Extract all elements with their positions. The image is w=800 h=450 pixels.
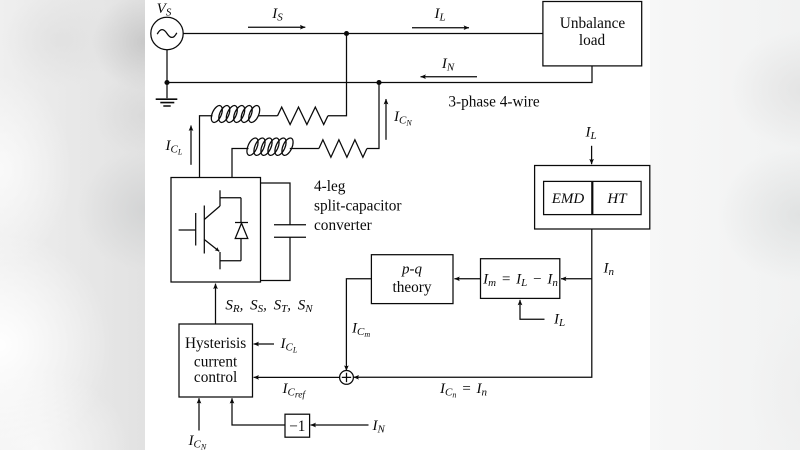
svg-text:ICm: ICm (351, 321, 370, 340)
svg-text:IS: IS (271, 6, 283, 24)
svg-text:In: In (603, 261, 615, 279)
svg-text:SR, SS, ST, SN: SR, SS, ST, SN (225, 298, 313, 316)
svg-text:HT: HT (606, 191, 628, 207)
svg-text:Hysterisis: Hysterisis (185, 335, 246, 352)
svg-text:current: current (194, 353, 238, 370)
svg-text:ICN: ICN (188, 433, 207, 450)
svg-text:ICL: ICL (280, 336, 298, 355)
svg-text:−1: −1 (289, 418, 305, 435)
svg-text:ICref: ICref (282, 381, 307, 401)
svg-text:load: load (579, 32, 606, 49)
svg-text:IL: IL (584, 125, 596, 143)
svg-text:ICL: ICL (165, 138, 183, 157)
svg-text:3-phase 4-wire: 3-phase 4-wire (448, 94, 540, 111)
svg-text:control: control (194, 369, 237, 386)
svg-text:VS: VS (157, 1, 172, 19)
svg-text:split-capacitor: split-capacitor (314, 198, 402, 215)
svg-text:IL: IL (433, 6, 445, 24)
svg-text:converter: converter (314, 217, 372, 234)
svg-text:ICN: ICN (393, 109, 412, 128)
svg-text:IN: IN (372, 418, 386, 436)
svg-text:p-q: p-q (401, 262, 422, 278)
svg-text:theory: theory (392, 279, 431, 296)
svg-text:EMD: EMD (551, 191, 585, 207)
svg-text:Unbalance: Unbalance (560, 15, 626, 32)
svg-text:Im = IL − In: Im = IL − In (482, 272, 558, 290)
svg-text:IN: IN (441, 56, 455, 74)
svg-text:4-leg: 4-leg (314, 178, 346, 195)
svg-text:ICn = In: ICn = In (439, 381, 487, 400)
svg-text:IL: IL (553, 312, 565, 330)
